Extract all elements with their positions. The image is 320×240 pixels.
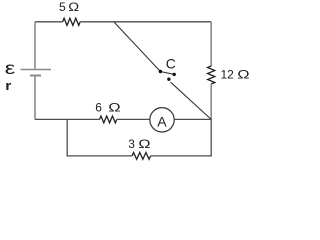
svg-text:12: 12 xyxy=(221,67,235,81)
svg-text:Ω: Ω xyxy=(138,138,151,151)
svg-text:5: 5 xyxy=(59,0,66,14)
svg-text:Ω: Ω xyxy=(237,69,250,82)
svg-text:C: C xyxy=(166,56,176,72)
svg-text:Ω: Ω xyxy=(68,0,79,13)
svg-text:ε: ε xyxy=(5,59,16,78)
svg-text:r: r xyxy=(5,78,12,92)
svg-text:A: A xyxy=(157,113,167,129)
svg-text:3: 3 xyxy=(128,137,135,151)
svg-text:Ω: Ω xyxy=(108,102,121,115)
svg-text:6: 6 xyxy=(95,100,102,114)
